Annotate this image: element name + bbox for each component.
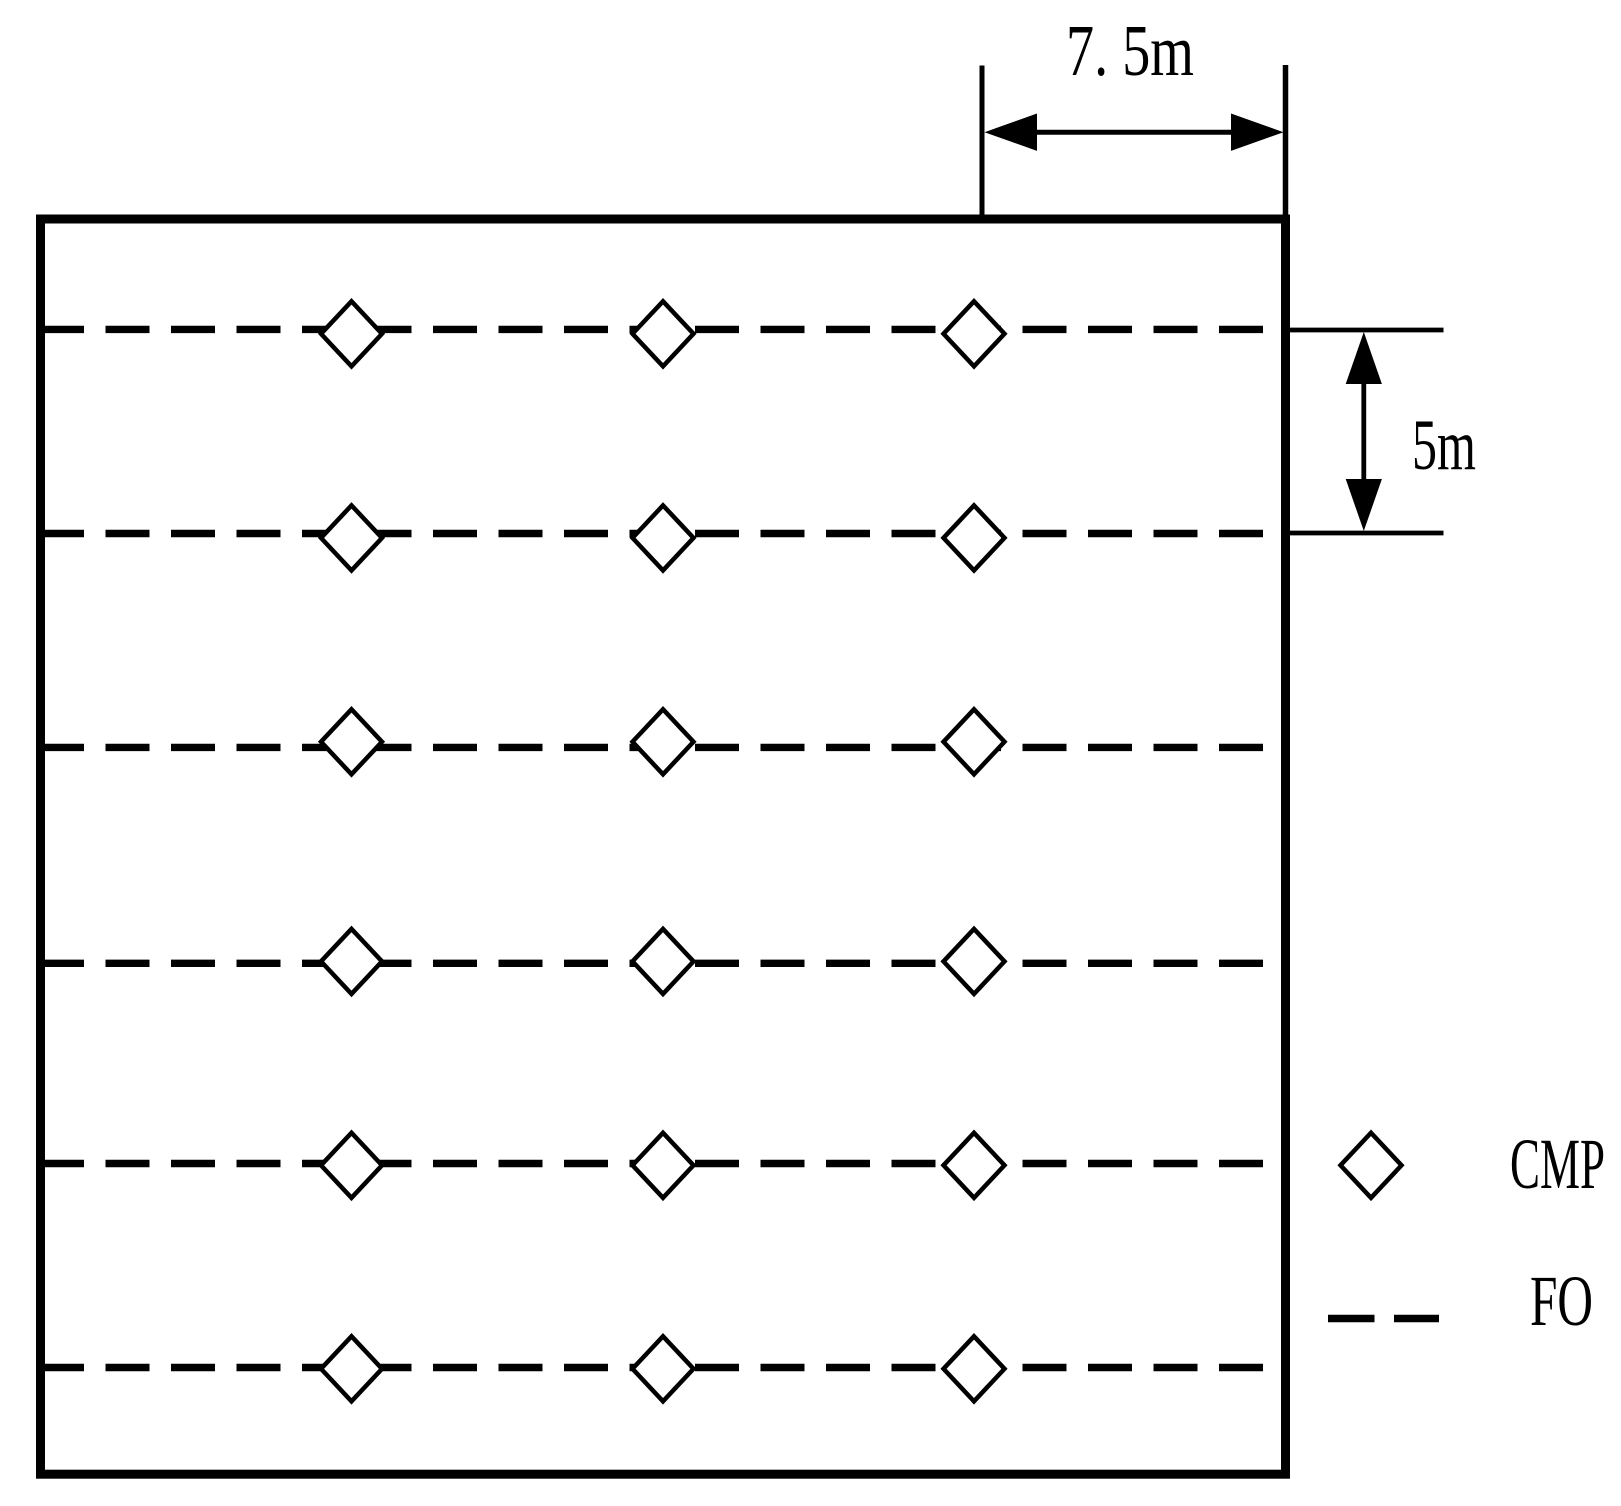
- svg-text:CMP: CMP: [1510, 1124, 1605, 1204]
- svg-text:FO: FO: [1530, 1261, 1593, 1341]
- svg-text:7. 5m: 7. 5m: [1066, 10, 1194, 91]
- svg-text:5m: 5m: [1412, 405, 1476, 485]
